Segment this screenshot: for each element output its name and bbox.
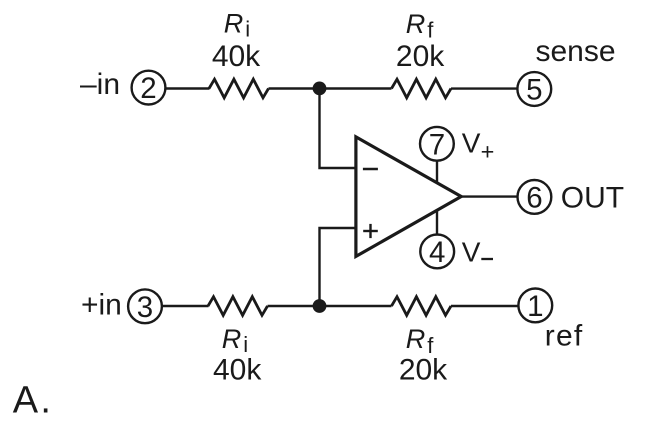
label Rf (bottom) [406, 324, 435, 358]
value 40k (top) [212, 40, 261, 73]
label Rf (top) [406, 9, 435, 43]
wire pin3 to Ri (bottom) [162, 305, 209, 307]
wire Ri to Rf (bottom) [268, 305, 392, 307]
svg-text:R: R [222, 324, 242, 354]
svg-text:OUT: OUT [561, 182, 624, 215]
wire Ri to Rf (top) [269, 87, 392, 89]
op-amp minus input symbol [363, 168, 378, 171]
svg-text:+: + [481, 138, 495, 164]
svg-text:2: 2 [140, 72, 156, 105]
label Ri (top) [224, 9, 250, 42]
svg-text:20k: 20k [399, 354, 448, 387]
wire Rf to pin1 [451, 305, 518, 307]
junction node (bottom) [313, 299, 327, 313]
svg-text:A.: A. [13, 380, 53, 422]
svg-text:V: V [462, 127, 481, 158]
svg-text:4: 4 [429, 236, 445, 269]
wire Rf to pin5 [451, 87, 518, 89]
op-amp plus input symbol [363, 224, 378, 238]
label +in [81, 289, 122, 322]
svg-text:7: 7 [429, 128, 445, 161]
junction node (top) [313, 82, 327, 96]
pin 4 circle [420, 235, 454, 270]
svg-text:40k: 40k [212, 40, 261, 73]
svg-text:sense: sense [536, 35, 616, 68]
svg-text:20k: 20k [396, 40, 445, 73]
svg-text:3: 3 [137, 291, 153, 324]
pin 6 circle [518, 180, 552, 215]
pin 2 circle [132, 71, 166, 106]
resistor Ri (bottom) [208, 297, 268, 316]
wire bottom junction to non-inverting input [320, 228, 358, 306]
svg-text:R: R [224, 9, 244, 39]
svg-text:1: 1 [527, 290, 543, 323]
pin 7 circle [420, 127, 454, 161]
label Ri (bottom) [222, 324, 248, 357]
svg-text:6: 6 [526, 182, 542, 215]
op-amp triangle [356, 137, 461, 257]
resistor Rf (top) [392, 79, 452, 98]
svg-text:5: 5 [526, 74, 542, 107]
svg-text:V: V [462, 237, 481, 268]
label sense [536, 35, 616, 68]
svg-text:ref: ref [545, 319, 584, 352]
label ref [545, 319, 584, 352]
wire op-amp to pin4 [436, 209, 438, 234]
svg-text:–in: –in [80, 68, 120, 101]
svg-text:R: R [406, 9, 426, 39]
resistor Rf (bottom) [392, 297, 452, 316]
label OUT [561, 182, 624, 215]
svg-text:40k: 40k [213, 354, 262, 387]
svg-text:i: i [245, 16, 250, 41]
figure label A. [13, 380, 53, 422]
resistor Ri (top) [209, 79, 269, 98]
wire top junction to inverting input [320, 89, 358, 169]
pin 3 circle [128, 289, 162, 324]
value 40k (bottom) [213, 354, 262, 387]
wire pin2 to Ri [165, 87, 209, 89]
svg-text:f: f [427, 18, 434, 43]
svg-text:R: R [406, 324, 426, 354]
wire pin7 to op-amp [436, 161, 438, 183]
svg-text:+in: +in [81, 289, 122, 322]
value 20k (bottom) [399, 354, 448, 387]
wire op-amp output to pin6 [460, 195, 518, 197]
pin 5 circle [517, 72, 551, 107]
label V- [462, 237, 481, 268]
value 20k (top) [396, 40, 445, 73]
label V+ [462, 127, 495, 164]
label -in [80, 68, 120, 101]
pin 1 circle [518, 289, 552, 324]
